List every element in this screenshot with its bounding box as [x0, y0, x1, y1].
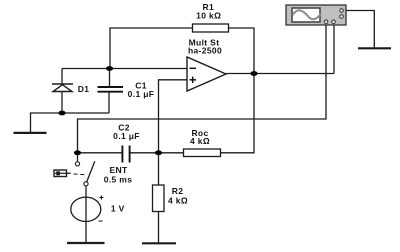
svg-text:D1: D1	[78, 84, 90, 94]
wire C2 right to Roc left	[130, 152, 184, 154]
junction dot inverting node	[106, 66, 113, 71]
wire source bottom lead	[85, 197, 87, 243]
switch contact top	[75, 162, 79, 166]
wire R1 left lead to inverting node	[110, 28, 193, 69]
oscilloscope screen	[292, 8, 320, 22]
svg-text:R2: R2	[172, 186, 184, 196]
ground at scope	[358, 47, 391, 49]
wire inverting input net	[62, 68, 187, 70]
resistor R1	[193, 24, 229, 32]
wire D1/C1 bottom net	[31, 113, 110, 133]
op-amp U1	[187, 57, 226, 91]
ground below R2	[142, 242, 176, 244]
svg-text:4 kΩ: 4 kΩ	[168, 196, 188, 206]
capacitor C2	[122, 146, 129, 163]
wire D1 top lead	[61, 69, 63, 85]
capacitor C1	[98, 87, 124, 92]
source minus mark	[99, 220, 103, 222]
oscilloscope body	[286, 5, 346, 25]
oscilloscope trace	[293, 10, 321, 19]
junction dot C2/Roc/R2 node	[155, 150, 162, 155]
wire scope ground lead	[344, 11, 375, 49]
source V1 1V	[71, 197, 101, 221]
wire scope A probe down to output	[333, 25, 335, 74]
switch dashed link	[74, 173, 86, 176]
wire input node up and right to scope B	[78, 25, 327, 153]
wire R2 top lead	[158, 153, 160, 185]
resistor Roc	[184, 149, 221, 157]
source through wire	[85, 197, 87, 222]
svg-text:0.5 ms: 0.5 ms	[104, 175, 133, 185]
junction dot D1/C1 bottom	[58, 111, 65, 116]
diode D1	[52, 84, 73, 92]
ground at D1/C1 net	[14, 132, 47, 134]
wire non-inverting input	[159, 80, 188, 153]
svg-text:10 kΩ: 10 kΩ	[196, 11, 221, 21]
wire D1 bottom lead	[61, 92, 63, 114]
svg-text:1 V: 1 V	[111, 203, 125, 213]
op-amp minus sign	[190, 67, 197, 69]
switch ENT key box	[54, 170, 71, 177]
wire switch stub from input node	[77, 153, 79, 162]
oscilloscope terminals	[324, 9, 343, 24]
svg-text:ha-2500: ha-2500	[188, 46, 222, 56]
wire C1 top lead	[109, 69, 111, 88]
svg-text:4 kΩ: 4 kΩ	[190, 136, 210, 146]
wire op-amp output net	[226, 73, 334, 75]
svg-text:0.1 μF: 0.1 μF	[113, 131, 140, 141]
switch arm	[87, 161, 95, 181]
wire R2 bottom lead	[158, 212, 160, 244]
wire source top lead	[85, 186, 87, 197]
resistor R2	[153, 185, 165, 212]
wire R1 right lead down to output node	[229, 28, 255, 74]
source plus mark	[99, 195, 103, 199]
wire C1 bottom lead	[108, 92, 110, 113]
switch contact bottom	[84, 182, 88, 186]
svg-text:0.1 μF: 0.1 μF	[128, 89, 155, 99]
svg-text:ENT: ENT	[109, 165, 128, 175]
junction dot input node	[74, 150, 81, 155]
wire input node to C2	[78, 152, 123, 154]
junction dot output node	[250, 71, 257, 76]
ground below source	[67, 242, 105, 244]
wire output down to Roc right	[221, 74, 255, 153]
op-amp plus sign	[190, 77, 197, 83]
